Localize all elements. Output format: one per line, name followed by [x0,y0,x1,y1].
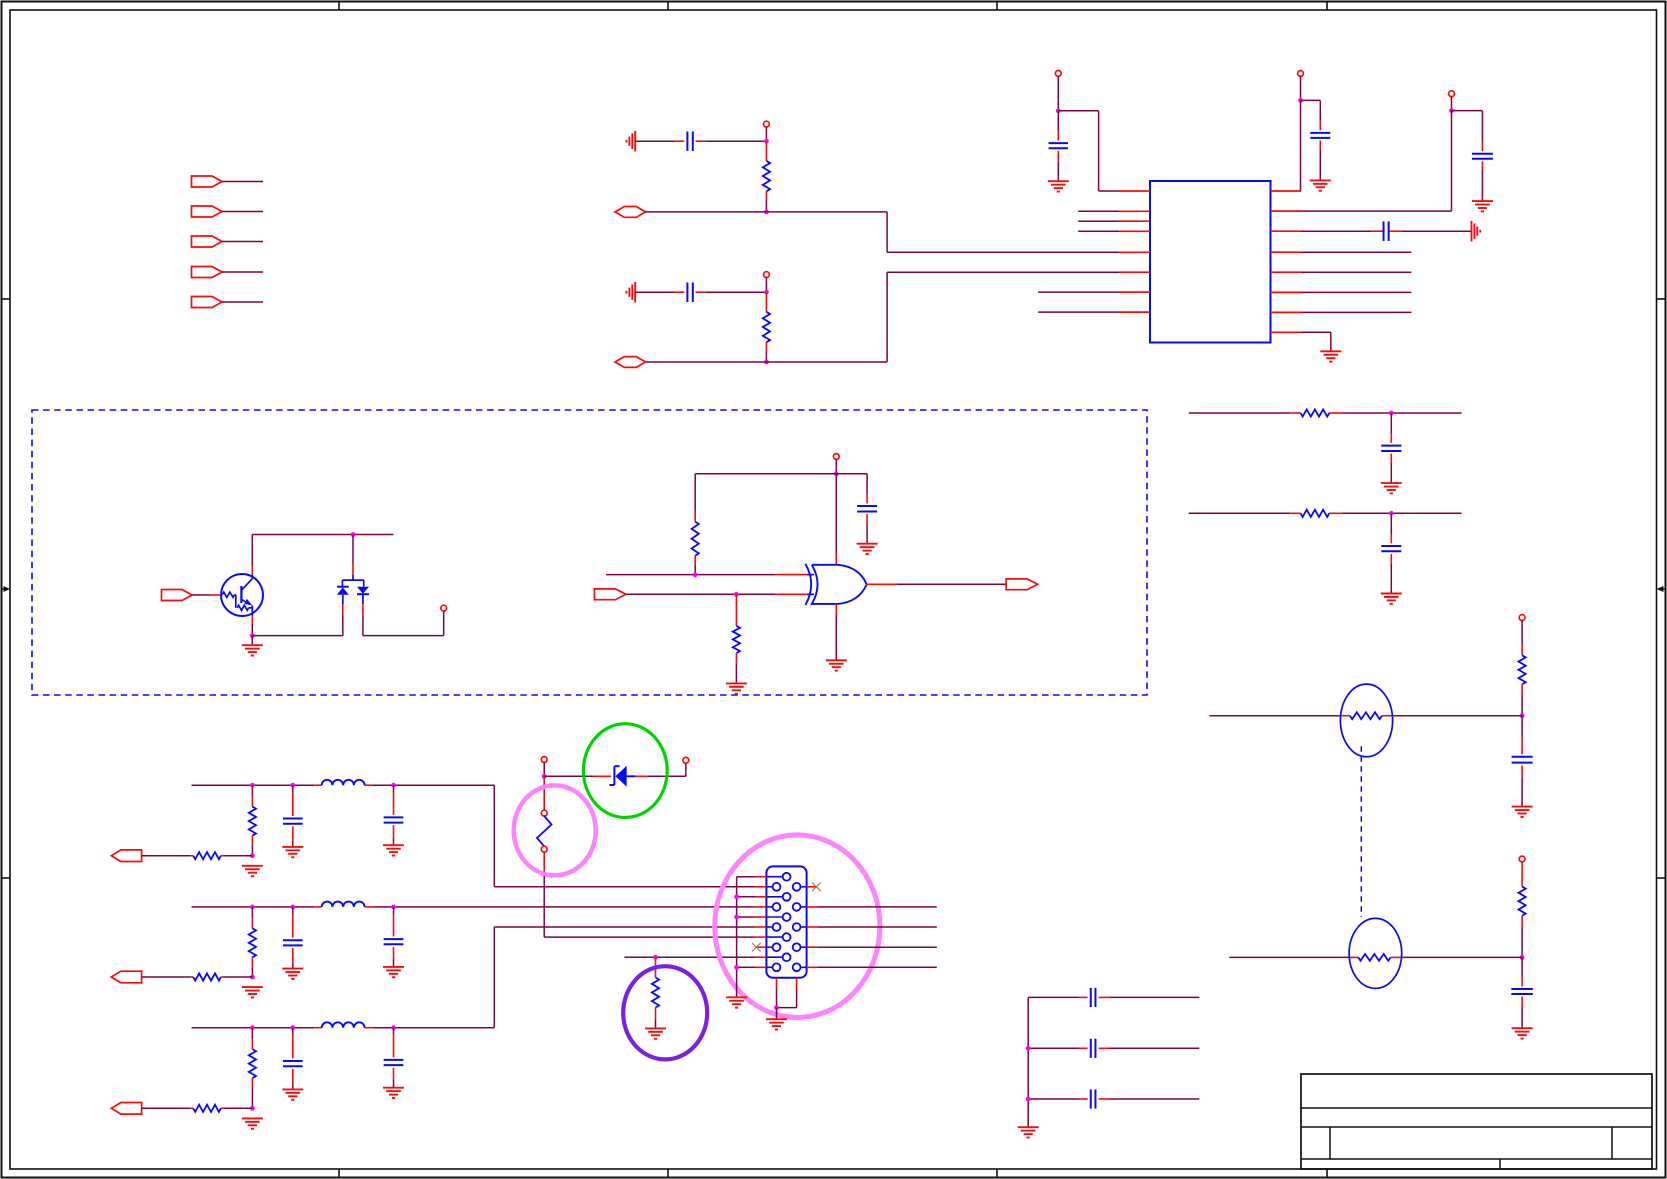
wire rail to diodes [352,535,354,575]
resistor R_p (jumper) [537,816,552,846]
junction row2 port [764,360,769,365]
port P3 [192,236,223,247]
xor gate U2 [805,564,866,605]
capacitor C_f3c [384,1028,404,1088]
junction bus b [734,915,739,920]
power terminal VT1 [764,121,770,127]
wire VCC3 [1451,97,1453,111]
wire collector rail [252,534,393,536]
ground GA1 (ac) [627,131,636,152]
ground G_x1 [857,544,878,554]
junction VX [834,471,839,476]
junction th1 [1520,713,1525,718]
no-connect X left [752,943,761,952]
port PH1 (bidir) [615,207,646,218]
resistor R_r2 [1301,510,1330,517]
highlight circle purple [623,966,707,1059]
port PH2 (bidir) [615,357,646,368]
port P2 [192,206,223,217]
diode pair bracket [342,575,363,587]
terminal T2 [683,757,689,763]
junction Q1 emitter [250,633,255,638]
border arrow left [2,586,11,592]
ground G_pu [645,1028,666,1038]
diode D2 [357,587,369,604]
resistor R_f3 [249,1028,256,1109]
capacitor C_t2 [687,282,692,302]
capacitor C_t1 [687,131,692,151]
wire J1 right out [817,907,937,967]
ground G_f3c [383,1088,404,1098]
diode D3 (schottky) [609,766,635,787]
border arrow right [1657,586,1666,592]
wire U1 pin stubs left lower [1038,292,1119,312]
junction f3a [250,1025,255,1030]
capacitor C_f2a [283,907,303,969]
junction f2a [250,905,255,910]
wire from port P3 [222,241,263,243]
wire D3 to T2 [635,763,685,776]
junction purple [653,955,658,960]
ground G_v1 [1048,181,1069,191]
junction input1 [693,572,698,577]
wire VX left rail [695,474,836,511]
wire filter row1 [192,784,495,786]
capacitor C_r1 [1381,413,1401,483]
connector J1 (vga) [766,866,806,977]
resistor R_x2 (pulldown) [733,594,740,683]
wire U1 pin3r to C [1301,230,1383,232]
port PF2 [111,971,141,983]
resistor R_r1 [1301,409,1330,416]
wire Q1 emitter [251,616,253,636]
power VX [833,454,839,460]
capacitor C_r2 [1381,513,1401,593]
ground G_f2c [383,967,404,977]
highlight circle green [583,724,667,818]
connector J1 right pin stubs [807,887,818,968]
wire J1 bottom pins [777,978,797,1008]
title block [1301,1074,1652,1169]
port PF3 [111,1103,141,1115]
wire rc1 [1189,412,1462,414]
junction f1p [250,853,255,858]
capacitor C_f1a [283,785,303,847]
power VR2 [1519,856,1525,862]
junction cb2 [1026,1046,1031,1051]
wire acgnd to C row2 [635,291,684,293]
wire therm row2 [1229,956,1522,958]
ic U1 [1150,181,1271,343]
wire gate vcc pin [835,474,837,565]
capacitor C_th1 [1512,716,1533,807]
highlight circle pink small [514,785,596,875]
terminal T3a [541,810,547,816]
capacitor C_b3 [1028,1089,1199,1108]
wire purple row [625,956,756,958]
resistor R_fp2 [142,973,253,980]
wire C to junction row1 [695,140,764,142]
port P5 [192,297,223,308]
wire gnd bus [737,877,756,998]
no-connect X right [812,883,821,892]
wire VCC2 [1300,76,1302,100]
ground G_f3b [282,1089,303,1099]
wire VD1 down [543,762,545,776]
resistor R_fp3 [142,1105,253,1112]
port PX (input2) [594,589,625,600]
port P4 [192,267,223,278]
junction VCC1 [1056,108,1061,113]
junction f2b [290,905,295,910]
ic U1 right pins [1271,191,1302,332]
resistor R_f2 [249,907,256,977]
wire VX down [835,459,837,473]
ground GA3 (ac) [1472,221,1481,242]
wire cap bus [1027,997,1029,1127]
capacitor C_b1 [1028,988,1199,1007]
capacitor C_f3a [283,1028,303,1090]
wire f3 to vga [494,927,755,1028]
wire VT1 down [765,127,767,141]
capacitor C_th2 [1511,957,1533,1028]
capacitor C_p3 [1384,221,1389,241]
terminal T3b [541,846,547,852]
junction f1a [250,783,255,788]
junction rc1 [1389,411,1394,416]
ground G_f1a [242,866,263,876]
wire U1 pin stubs left upper [1078,211,1119,231]
wire VCC3 to U1 right pin2 [1301,111,1452,212]
wire f1 to vga [494,785,755,887]
junction J1 bottom [774,1005,779,1010]
junction VD1 [542,774,547,779]
wire port row2 [646,361,888,363]
wire J1 to ground [776,1008,778,1020]
capacitor C_f2c [384,907,404,967]
terminal T1 [441,605,447,611]
capacitor C_v1 [1049,111,1069,181]
wire D1 to emitter junction [252,604,342,636]
wire row1 to IC [887,212,1119,252]
junction row1 upper [764,139,769,144]
power VR1 [1519,615,1525,621]
resistor R_f1 [249,785,256,856]
capacitor C_f1c [384,785,404,845]
ground G_j1 [766,1019,787,1029]
ground G_f3a [242,1118,263,1128]
connector J1 left pin stubs [756,877,767,968]
capacitor C_v2 [1301,100,1331,180]
wire from port P5 [222,301,263,303]
wire from port P4 [222,271,263,273]
wire from port P1 [222,181,263,183]
junction f3c [391,1025,396,1030]
ground G_r2 [1381,594,1402,604]
wire Q1 emitter to ground [251,636,253,646]
highlight circle pink large [715,835,880,1018]
resistor R_pu [652,957,659,1028]
wire U1 pin stubs right [1301,252,1411,312]
junction bus c [734,965,739,970]
junction rc2 [1389,511,1394,516]
ground G_r1 [1381,483,1402,493]
junction f1c [391,783,396,788]
inductor L3 [322,1022,365,1027]
ground G_th1 [1512,807,1533,817]
ground GA2 (ac) [627,282,636,303]
wire C to junction row2 [695,291,764,293]
wire VX right [836,474,867,495]
wire VCC1 [1057,76,1059,111]
wire row2 to IC [887,272,1119,362]
ground G_q1 [242,645,263,655]
wire U1 pin8r to ground [1301,332,1331,351]
wire VCC2 to U1 right pin1 [1300,100,1302,191]
capacitor C_v3 [1452,111,1493,202]
ground G_x2 [726,683,747,693]
ground G_f1c [383,845,404,855]
wire port to Q1 [192,594,222,596]
resistor R_t2 [763,292,770,362]
port PQ (to Q1 base) [162,590,193,601]
junction input2 [734,592,739,597]
wire VD1 junction down [543,776,545,810]
wire C_p3 to acgnd [1389,230,1471,232]
ground G_bus [726,997,747,1007]
wire xor output [867,583,1007,585]
wire VT2 down [765,278,767,293]
junction cb3 [1026,1097,1031,1102]
resistor R_fp1 [142,852,253,859]
wire filter row2 [192,906,756,908]
port P1 [192,176,223,187]
resistor R_t1 [763,141,770,212]
ground G_v2 [1310,180,1331,190]
wire port row1 [646,211,888,213]
resistor R_x1 (pullup) [692,511,699,575]
junction VCC2 [1298,98,1303,103]
junction row1 port [764,210,769,215]
ground G_f2b [282,969,303,979]
power VD1 [541,757,547,763]
junction row2 upper [764,290,769,295]
wire gate gnd pin [835,604,837,660]
wire Q1 collector [251,535,253,575]
power VCC3 [1449,91,1455,97]
junction f3p [250,1106,255,1111]
junction f1b [290,783,295,788]
junction th2 [1520,955,1525,960]
power VCC1 [1055,71,1061,77]
diode D1 [337,587,349,604]
inductor L2 [322,902,365,907]
wire xor input1 [606,574,807,576]
wire therm row1 [1210,715,1523,717]
junction VCC3 [1449,108,1454,113]
wire R_p down to vga [544,852,755,937]
ground G_v3 [1472,201,1493,211]
transistor Q1 [221,574,263,616]
wire acgnd to C row1 [635,140,684,142]
wire to D3 [544,775,611,777]
port PXO (output) [1006,579,1037,590]
junction f2p [250,975,255,980]
ground G_cb [1018,1127,1039,1137]
thermistor TH2 [1349,918,1402,988]
junction f3b [290,1025,295,1030]
thermistor TH1 [1340,684,1392,757]
wire rc2 [1189,512,1462,514]
dashed link TH1-TH2 [1360,746,1362,917]
wire VCC1 to U1 pin1 [1058,111,1119,191]
ground G_f1b [282,847,303,857]
dashed group box [32,410,1147,695]
ground G_x3 [826,660,847,670]
ground G_th2 [1512,1028,1533,1038]
wire xor input2 [626,593,807,595]
wire D2 to terminal [363,604,444,636]
junction rail [351,532,356,537]
wire filter row3 [192,1027,495,1029]
capacitor C_x [857,494,877,543]
power VCC2 [1298,71,1304,77]
wire from port P2 [222,211,263,213]
power terminal VT2 [764,272,770,278]
inductor L1 [322,780,365,785]
junction f2c [391,905,396,910]
ic U1 left pins [1119,191,1150,312]
ground G_u1 [1320,351,1341,361]
resistor R_u2 [1519,862,1526,958]
ground G_f2a [242,987,263,997]
resistor R_u1 [1519,621,1526,716]
junction bus a [734,894,739,899]
port PF1 [111,850,141,862]
capacitor C_b2 [1028,1039,1199,1058]
